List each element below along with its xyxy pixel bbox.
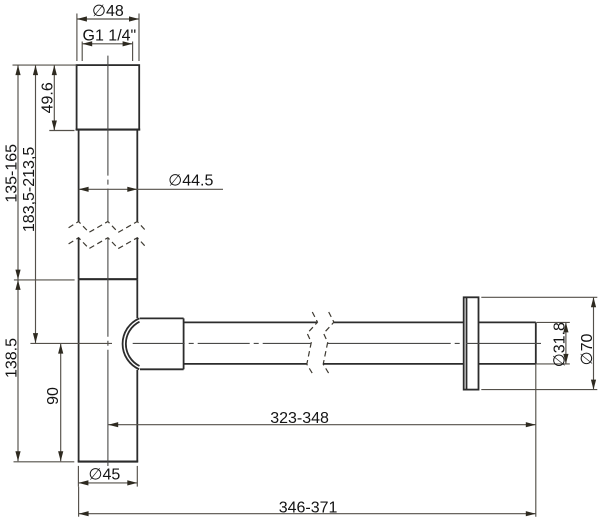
left top extension line (cap top) — [13, 64, 77, 66]
vertical centerline of body — [107, 56, 109, 222]
break line lower zigzag — [69, 238, 147, 249]
tube lower section — [79, 238, 138, 280]
extension line at pipe axis level — [30, 342, 112, 344]
dim 138.5 — [17, 280, 19, 461]
break line upper zigzag — [69, 222, 147, 233]
pipe break zigzag right — [323, 312, 334, 373]
nut nose inner curve — [126, 322, 140, 366]
right vertical extension line (pipe end) — [535, 364, 537, 517]
dim ⌀70 extension lines — [481, 296, 597, 298]
svg-text:∅31.8: ∅31.8 — [551, 322, 568, 367]
extension line at 49.6 bottom — [49, 130, 74, 132]
svg-text:323-348: 323-348 — [270, 410, 329, 427]
svg-text:49.6: 49.6 — [40, 82, 57, 113]
dim ⌀44.5 line with leader — [79, 188, 223, 190]
dim ⌀31.8 extension lines — [537, 321, 570, 323]
horizontal centerline of outlet pipe — [133, 342, 311, 344]
svg-text:G1 1/4": G1 1/4" — [83, 28, 137, 45]
svg-text:∅44.5: ∅44.5 — [168, 173, 213, 190]
dim ⌀31.8 line — [565, 322, 567, 364]
wall flange (⌀70) — [464, 297, 479, 389]
svg-text:183,5-213,5: 183,5-213,5 — [21, 147, 38, 233]
dim ⌀48 line — [77, 18, 139, 20]
svg-text:90: 90 — [45, 387, 62, 405]
joint line tube/body — [79, 278, 138, 280]
dim ⌀48 arrows — [77, 16, 87, 21]
dim 135-165 — [17, 65, 19, 280]
dim 90 — [60, 344, 62, 462]
outlet pipe right segment — [323, 322, 536, 364]
dim ⌀70 line — [593, 297, 595, 389]
svg-text:346-371: 346-371 — [279, 499, 338, 516]
svg-text:135-165: 135-165 — [4, 144, 21, 203]
tube upper section (⌀44.5) — [79, 130, 138, 222]
dim G1 1/4 arrows — [82, 41, 92, 46]
dim 323-348 — [108, 424, 536, 426]
dim ⌀48 extension lines — [76, 14, 78, 62]
extension line at joint level — [14, 279, 75, 281]
svg-text:∅48: ∅48 — [92, 3, 124, 20]
dim ⌀45 extension lines — [77, 466, 79, 487]
outlet pipe left segment (⌀31.8) — [184, 322, 318, 364]
svg-text:138.5: 138.5 — [4, 338, 21, 378]
nut nose outer curve — [123, 318, 140, 369]
trap body (⌀45) — [78, 279, 139, 461]
svg-text:∅45: ∅45 — [89, 466, 121, 483]
dim 346-371 — [79, 513, 536, 515]
dim G1 1/4 line — [82, 43, 132, 45]
extension line at body bottom — [14, 461, 75, 463]
left bottom extension (⌀45 / 346-371) — [78, 487, 80, 517]
cap (G1 1/4 connection sleeve, ⌀48) — [76, 65, 141, 130]
svg-text:∅70: ∅70 — [579, 334, 596, 366]
dim ⌀45 line — [78, 482, 137, 484]
pipe break zigzag left — [307, 312, 318, 373]
dim G1 1/4 extension lines — [81, 42, 83, 62]
dim 183,5-213,5 — [35, 65, 37, 343]
dim 49.6 — [53, 65, 55, 130]
compression nut on outlet — [140, 318, 184, 369]
